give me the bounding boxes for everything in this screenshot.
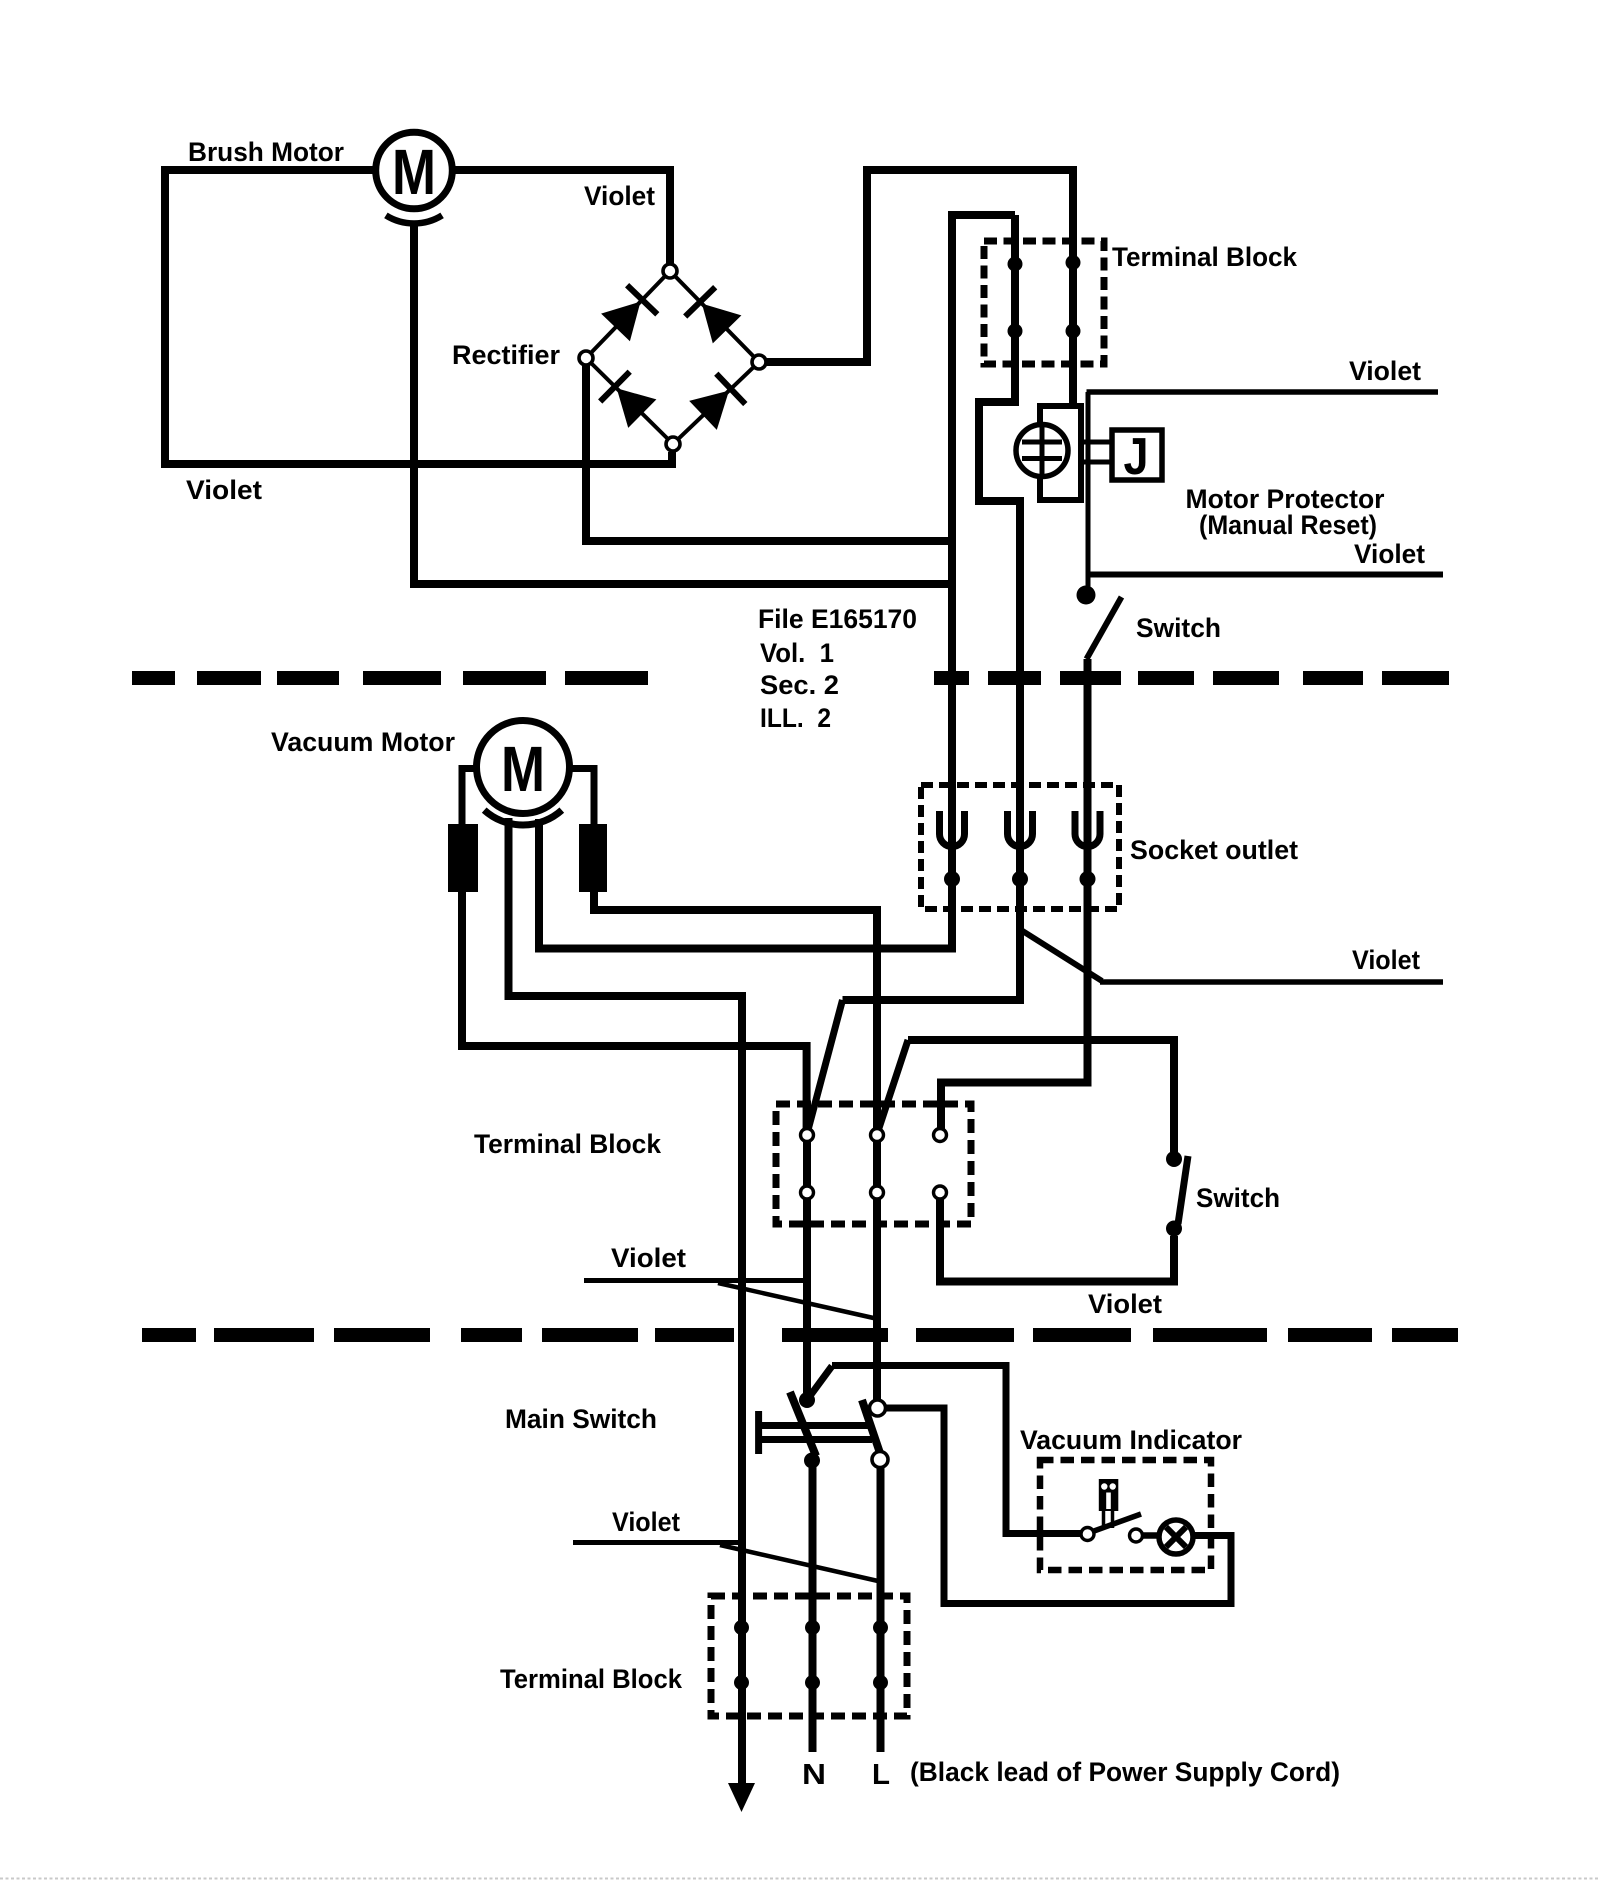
rectifier diode D1 (left-top edge) [601, 302, 640, 342]
svg-text:Switch: Switch [1196, 1183, 1280, 1213]
wire pole2 top to vacuum indicator loop [886, 1408, 1232, 1604]
wire main switch poles down through TB3 [809, 1460, 817, 1752]
rectifier bridge edges [586, 271, 759, 444]
svg-text:ILL. 2: ILL. 2 [760, 703, 831, 733]
wire rectifier right node to terminal block right column [766, 170, 1073, 406]
TB3 pin dots [734, 1620, 749, 1635]
thermal element left (black rect) [448, 824, 478, 892]
wire left lead to terminal A [462, 890, 807, 1128]
wire switch SW1 to socket right pin [941, 659, 1088, 1129]
separator dashed line right [934, 671, 1449, 685]
svg-text:Violet: Violet [1354, 539, 1425, 569]
wire TB2 right pin to right switch [940, 1199, 1174, 1282]
svg-text:Terminal Block: Terminal Block [500, 1664, 683, 1694]
svg-text:Socket outlet: Socket outlet [1130, 835, 1298, 865]
wire rectifier left node down [586, 365, 948, 541]
svg-text:Violet: Violet [1352, 945, 1420, 975]
svg-text:Vacuum Indicator: Vacuum Indicator [1020, 1425, 1242, 1455]
TB2 internal links [803, 1142, 811, 1186]
wire diagonal from y1000 to terminal A [808, 1000, 843, 1130]
svg-text:Switch: Switch [1136, 613, 1221, 643]
svg-text:Violet: Violet [1349, 356, 1421, 386]
wire diagonal from y1040 to terminal B [878, 1040, 908, 1131]
svg-text:Main Switch: Main Switch [505, 1404, 657, 1434]
wire TB2 pins down to main switch [803, 1199, 811, 1393]
wire vacuum motor right lead [571, 769, 594, 827]
wire motor M1 bottom lead [414, 222, 948, 584]
TB1 pin dots [1008, 257, 1023, 272]
svg-text:Brush Motor: Brush Motor [188, 137, 344, 167]
svg-text:Terminal Block: Terminal Block [474, 1129, 662, 1159]
socket outlet dashed box [921, 785, 1119, 909]
wire brush motor left loop [165, 170, 672, 464]
J box [1112, 430, 1162, 480]
wire motor M1 right to rectifier top [455, 170, 670, 265]
node rectifier right [752, 355, 766, 369]
separator dashed line left [132, 671, 648, 685]
wire violet vertical at protector right [1086, 392, 1091, 590]
motor protector body [1040, 406, 1081, 500]
switch SW2 (right) [1166, 1151, 1182, 1167]
svg-text:Rectifier: Rectifier [452, 340, 560, 370]
svg-text:Vol. 1: Vol. 1 [760, 638, 834, 668]
thermal element right (black rect) [579, 824, 607, 892]
wire socket middle pin diagonal to violet [1021, 930, 1102, 981]
rectifier diode D2 (top-right edge) [702, 304, 742, 344]
svg-text:N: N [802, 1759, 826, 1791]
svg-text:(Black lead of Power Supply Co: (Black lead of Power Supply Cord) [910, 1757, 1340, 1787]
svg-text:File E165170: File E165170 [758, 604, 917, 634]
ground arrow (power cord) [728, 1783, 755, 1812]
vacuum indicator switch [1081, 1528, 1094, 1541]
vacuum indicator dashed box [1040, 1460, 1211, 1570]
terminal block TB1 (top) dashed box [984, 241, 1104, 364]
separator dashed line 2 [142, 1328, 1458, 1342]
wire vacuum motor left lead [462, 769, 475, 827]
wire vacuum motor mid-left lead to main switch line [509, 818, 743, 1783]
main switch mechanical link [755, 1411, 762, 1454]
svg-text:Vacuum Motor: Vacuum Motor [271, 727, 455, 757]
wire Violet (right 2) [1087, 572, 1444, 578]
wire AC net vertical x952 [539, 215, 1015, 949]
switch SW1 blade [1087, 597, 1122, 659]
J box leads [1081, 440, 1112, 445]
wire Violet (right 3) [1100, 979, 1443, 985]
svg-text:Sec. 2: Sec. 2 [760, 670, 839, 700]
node rectifier bottom [666, 437, 680, 451]
main switch pole 2 [870, 1400, 886, 1416]
main switch pole 1 [807, 1366, 832, 1400]
svg-text:Violet: Violet [612, 1507, 680, 1537]
node rectifier top [663, 264, 677, 278]
socket pin U at x=952 [940, 811, 965, 847]
node rectifier left [579, 351, 593, 365]
wire Violet (top right) [1087, 389, 1439, 395]
wire right lead to terminal B [594, 890, 877, 1128]
faint scan line bottom [0, 1878, 1600, 1880]
lamp (circle with X) [1159, 1520, 1193, 1554]
svg-text:Violet: Violet [1088, 1289, 1162, 1319]
svg-text:Violet: Violet [186, 475, 262, 505]
terminal block TB2 (middle) dashed box [776, 1104, 971, 1224]
motor M2 vacuum motor [477, 721, 570, 825]
socket pin U at x=1020 [1008, 811, 1033, 847]
motor M1 brush motor [376, 132, 453, 223]
svg-text:Violet: Violet [611, 1243, 686, 1273]
svg-text:Terminal Block: Terminal Block [1112, 242, 1298, 272]
wire terminal block left column jog to socket middle pin [843, 215, 1021, 1000]
motor protector symbol circle [1016, 425, 1068, 477]
rectifier diode D3 (bottom-left edge) [617, 388, 657, 428]
TB2 pins (open circles) [801, 1129, 814, 1142]
svg-text:(Manual Reset): (Manual Reset) [1199, 510, 1377, 540]
wire y1040 run to right switch [908, 1040, 1174, 1152]
svg-text:J: J [1124, 428, 1149, 486]
socket pin U at x=1087.5 [1075, 811, 1100, 847]
junction dot above switch [1077, 586, 1096, 605]
svg-text:M: M [501, 733, 545, 805]
rectifier diode D4 (bottom-right edge) [689, 391, 729, 430]
svg-text:M: M [392, 136, 436, 208]
terminal block TB3 (bottom) dashed box [711, 1596, 907, 1716]
svg-text:L: L [872, 1759, 890, 1791]
svg-text:Violet: Violet [584, 181, 655, 211]
vacuum sensor icon [1099, 1479, 1119, 1511]
